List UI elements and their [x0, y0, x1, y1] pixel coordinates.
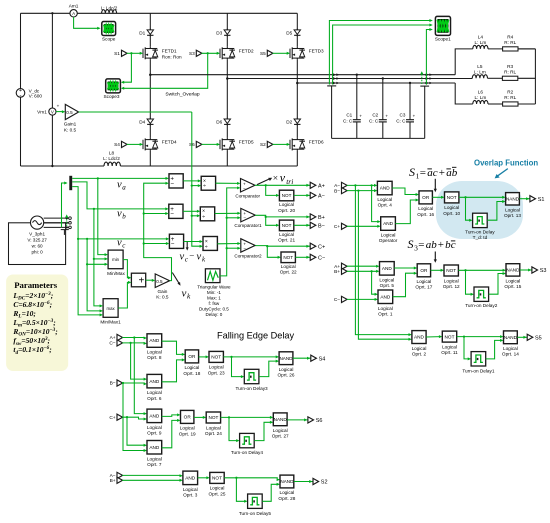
output port S4	[307, 355, 325, 362]
logic AND Oprt. 3	[183, 471, 198, 497]
input port S2	[260, 141, 273, 147]
svg-text:Ron: Ron: Ron: Ron	[162, 54, 182, 59]
parameters note box	[6, 275, 68, 372]
svg-text:NAND: NAND	[274, 417, 288, 422]
svg-text:Am1: Am1	[69, 4, 79, 9]
logic AND Oprt. 4	[377, 181, 392, 207]
wire v_b	[72, 182, 169, 211]
svg-text:B+: B+	[318, 215, 325, 221]
output port S5	[523, 334, 541, 341]
svg-text:Logical: Logical	[147, 456, 162, 461]
svg-text:Oprt. 7: Oprt. 7	[147, 462, 162, 467]
wire OR17 to NOT12	[431, 269, 444, 272]
svg-text:−: −	[243, 246, 246, 251]
wire NOT25 to NAND28	[224, 478, 280, 481]
svg-text:AND: AND	[149, 445, 160, 450]
sum block Sum	[169, 174, 183, 188]
wire NOT10 branch to delay	[464, 196, 472, 222]
wire phase C line	[297, 82, 455, 84]
wire delay to NAND13	[487, 200, 505, 220]
svg-text:Min/Max1: Min/Max1	[100, 320, 121, 325]
wire gate S6	[202, 143, 221, 146]
svg-text:NOT: NOT	[282, 193, 292, 198]
diode D5	[286, 29, 300, 37]
svg-text:Turn-on Delay: Turn-on Delay	[465, 229, 495, 234]
svg-text:+: +	[139, 275, 145, 286]
diode D3	[216, 29, 230, 37]
svg-text:NOT: NOT	[446, 268, 456, 273]
svg-text:S4: S4	[319, 356, 326, 362]
svg-text:AND: AND	[185, 476, 196, 481]
svg-text:OR: OR	[184, 415, 192, 420]
wire gain1 line to products	[191, 112, 203, 248]
svg-text:B−: B−	[334, 188, 340, 194]
svg-text:Max: 1: Max: 1	[207, 295, 221, 300]
svg-text:v: v	[197, 252, 202, 263]
svg-text:Oprt. 4: Oprt. 4	[378, 203, 393, 208]
wire load right edge	[534, 49, 536, 104]
wire phase A line	[150, 74, 455, 76]
svg-text:Logical: Logical	[209, 365, 224, 370]
svg-text:Oprt. 11: Oprt. 11	[441, 350, 458, 355]
wire gate S4	[127, 143, 143, 146]
wire AND7 to OR19	[162, 419, 181, 448]
svg-text:Oprt. 20: Oprt. 20	[278, 208, 295, 213]
svg-text:Comparator1: Comparator1	[234, 223, 262, 228]
input port B+ (row S2)	[110, 477, 123, 484]
wire NOT10 to NAND13	[459, 196, 506, 199]
wire AND5 to OR17	[394, 267, 417, 270]
svg-text:Oprt. 28: Oprt. 28	[278, 496, 295, 501]
svg-text:C1: C1	[346, 113, 352, 118]
wire A- to AND4	[347, 184, 378, 187]
source V_3ph1 symbol	[27, 216, 47, 255]
svg-text:C2: C2	[372, 113, 378, 118]
wire OR18 to NOT23	[199, 355, 209, 358]
svg-text:−: −	[170, 180, 174, 187]
wire NOT23 branch to delay3	[230, 356, 244, 378]
wire NOT12 branch to delay2	[464, 269, 474, 296]
svg-text:Oprt. 26: Oprt. 26	[278, 373, 295, 378]
label Overlap Function	[474, 158, 538, 167]
logic NOT Oprt. 11	[441, 331, 458, 355]
wire comparator2 to C+	[255, 245, 310, 247]
diode D1	[139, 29, 153, 37]
svg-text:A+: A+	[334, 264, 340, 270]
output port B+	[306, 214, 324, 221]
svg-text:AND: AND	[149, 338, 160, 343]
logic AND Oprt. 9	[147, 409, 162, 435]
svg-text:V: V	[51, 109, 54, 114]
svg-text:Oprt. 10: Oprt. 10	[443, 211, 460, 216]
delay block Turn-on Delay2	[465, 287, 498, 308]
svg-text:Logical: Logical	[147, 425, 162, 430]
svg-text:AND: AND	[382, 266, 393, 271]
svg-text:C: C: C: C	[396, 118, 406, 123]
logic NOT Oprt. 10	[443, 192, 460, 216]
svg-text:b: b	[122, 212, 126, 220]
wire cap bottom rail	[332, 137, 425, 139]
wire Am1 to Scope	[74, 17, 101, 30]
product block Product1	[200, 207, 214, 221]
svg-text:DutyCycle: 0.5: DutyCycle: 0.5	[199, 306, 229, 311]
wire va tap to min	[97, 177, 108, 256]
wire C- to AND1	[347, 298, 378, 301]
wire product2 to comparator2	[217, 242, 240, 245]
svg-text:S4: S4	[114, 142, 120, 147]
svg-text:Oprt. 27: Oprt. 27	[272, 434, 289, 439]
wire gate S5	[273, 52, 291, 55]
svg-text:NOT: NOT	[283, 255, 293, 260]
delay block Turn-on Delay5	[239, 494, 272, 516]
scope Scope3	[104, 79, 121, 99]
svg-text:S: S	[409, 165, 415, 179]
logic AND Logical Operator	[379, 217, 398, 243]
svg-text:AND: AND	[383, 221, 394, 226]
svg-text:S: S	[408, 237, 414, 251]
wire 3ph outputs	[44, 217, 72, 235]
svg-text:−: −	[189, 251, 194, 261]
wire NAND15 to S3	[520, 269, 532, 271]
logic NAND Oprt. 27	[272, 413, 289, 439]
logic NAND Oprt. 28	[278, 475, 295, 501]
capacitor C1	[343, 113, 362, 124]
svg-text:R4: R4	[507, 34, 513, 39]
logic NOT Oprt. 25	[209, 472, 226, 496]
wire NOT12 to NAND15	[458, 269, 506, 272]
svg-text:B−: B−	[110, 381, 116, 387]
svg-text:+: +	[438, 239, 444, 251]
svg-text:Oprt. 16: Oprt. 16	[417, 212, 434, 217]
wire load row2	[472, 77, 535, 79]
svg-text:NAND: NAND	[506, 196, 520, 201]
voltmeter wire Vm1	[51, 12, 53, 167]
svg-text:B+: B+	[110, 478, 116, 484]
label v_k	[182, 287, 192, 300]
svg-text:Logical: Logical	[180, 426, 195, 431]
arrow v_k annotation	[172, 273, 181, 287]
svg-text:K: 0.5: K: 0.5	[156, 295, 169, 300]
svg-text:Oprt. 18: Oprt. 18	[183, 371, 200, 376]
wire source to bus bar	[61, 182, 68, 228]
wire A+ to AND8	[122, 337, 147, 340]
logic AND Oprt. 8	[147, 334, 162, 360]
parameters text	[12, 280, 57, 356]
svg-text:S2: S2	[260, 142, 266, 147]
comparator Comparator1	[234, 208, 262, 228]
svg-text:+: +	[57, 103, 60, 108]
svg-text:Oprt. 17: Oprt. 17	[415, 285, 432, 290]
wire NAND27 to S6	[287, 419, 308, 421]
wire comparator1 to B+	[255, 215, 310, 218]
wire sum3 to gain	[146, 279, 156, 282]
wire NAND28 to S2	[294, 481, 313, 483]
svg-text:Triangular Wave: Triangular Wave	[197, 284, 231, 289]
inductor L4	[473, 34, 488, 49]
wire inverter leg 2	[226, 13, 229, 166]
svg-text:Logical: Logical	[206, 425, 221, 430]
wire A- branch to AND2	[354, 184, 412, 336]
output port S2	[309, 478, 327, 485]
svg-text:A+: A+	[318, 183, 325, 189]
wire NOT to C-	[295, 256, 310, 258]
voltmeter arrow right	[420, 71, 423, 84]
svg-text:AND: AND	[149, 379, 160, 384]
svg-text:S5: S5	[260, 51, 266, 56]
logic NOT Oprt. 22	[267, 246, 297, 274]
svg-text:Gain1: Gain1	[64, 122, 77, 127]
logic NAND Oprt. 15	[504, 264, 521, 289]
svg-text:K: 0.5: K: 0.5	[64, 127, 77, 132]
wire delay2 to NAND15	[489, 272, 506, 294]
wire phase B line	[227, 78, 472, 80]
wire product1 to comparator1	[215, 212, 241, 215]
node taps right cluster	[425, 73, 432, 84]
wire NOT11 to NAND14	[457, 335, 504, 338]
svg-text:v: v	[280, 171, 286, 185]
wire bottom rail	[21, 165, 298, 167]
svg-text:Logical: Logical	[279, 490, 294, 495]
diode D4	[139, 118, 153, 126]
logic NAND Oprt. 13	[504, 193, 521, 218]
svg-text:Logical: Logical	[378, 306, 393, 311]
svg-text:OR: OR	[188, 354, 196, 359]
svg-text:max: max	[107, 306, 116, 311]
input port S6	[189, 141, 202, 147]
wire NOT24 branch to delay4	[228, 416, 240, 442]
wire scope1 tap A	[329, 19, 432, 85]
svg-text:B+: B+	[334, 269, 340, 275]
svg-text:Oprt. 3: Oprt. 3	[183, 493, 198, 498]
wire B+ to AND5	[347, 270, 380, 273]
svg-text:Logical: Logical	[279, 367, 294, 372]
svg-text:Min: -1: Min: -1	[207, 290, 221, 295]
logic AND Oprt. 5	[379, 262, 394, 288]
wire gate S2	[273, 143, 291, 146]
svg-text:0.5: 0.5	[156, 279, 163, 284]
label vc-vk	[180, 251, 207, 264]
svg-text:Gain: Gain	[157, 289, 167, 294]
svg-text:Oprt. 9: Oprt. 9	[147, 431, 162, 436]
svg-text:C−: C−	[109, 341, 115, 347]
wire capacitor C3 column	[409, 82, 411, 139]
output port C-	[306, 254, 325, 261]
wire OR19 to NOT24	[194, 416, 206, 419]
product block Product2	[203, 237, 217, 251]
mosfet FETD2	[220, 47, 254, 60]
svg-text:Oprt. 24: Oprt. 24	[205, 431, 222, 436]
wire NOT to B-	[294, 224, 310, 226]
svg-text:+: +	[359, 114, 362, 119]
input port C+ (row S6)	[109, 414, 122, 421]
svg-text:FETD6: FETD6	[309, 140, 324, 145]
input port S1	[114, 50, 127, 56]
wire capacitor C1 column	[356, 74, 358, 139]
wire AND1 to OR17	[393, 272, 418, 297]
scope Scope1	[435, 16, 451, 41]
logic NOT Oprt. 24	[205, 412, 222, 436]
svg-text:Logical: Logical	[418, 206, 433, 211]
wire triangle to comparators	[220, 186, 241, 276]
wire gate S1	[127, 52, 143, 55]
input port C+ (row S1)	[334, 223, 347, 230]
svg-text:Logical: Logical	[147, 390, 162, 395]
svg-text:Oprt. 25: Oprt. 25	[209, 491, 226, 496]
svg-text:b: b	[431, 239, 437, 251]
svg-text:w: 60: w: 60	[32, 244, 43, 249]
svg-text:D3: D3	[216, 30, 222, 35]
mosfet FETD3	[290, 47, 324, 60]
wire comparator0 to A+	[255, 184, 310, 186]
svg-text:D4: D4	[139, 119, 145, 124]
wire B- branch to AND2	[357, 189, 412, 340]
svg-text:Oprt. 1: Oprt. 1	[378, 311, 393, 316]
svg-text:Operator: Operator	[379, 238, 398, 243]
input port A+ (row S4)	[110, 334, 123, 341]
svg-text:S3: S3	[540, 268, 547, 274]
svg-text:Logical: Logical	[377, 197, 392, 202]
svg-text:AND: AND	[414, 335, 425, 340]
inductor L8 (Ldc/2) bottom	[103, 150, 120, 166]
output port A+	[306, 182, 324, 189]
logic OR Oprt. 17	[415, 264, 432, 290]
minmax block Min/Max	[107, 250, 125, 276]
svg-text:V_3ph1: V_3ph1	[29, 231, 45, 236]
svg-text:Scope1: Scope1	[435, 36, 451, 41]
wire AND8 to OR18	[162, 341, 186, 356]
comparator Comparator2	[234, 239, 262, 259]
wire min to sum3	[123, 260, 131, 280]
svg-text:S1: S1	[114, 51, 120, 56]
logic AND Oprt. 7	[147, 441, 162, 467]
wire A- to AND3	[122, 474, 183, 477]
svg-text:Scope3: Scope3	[104, 94, 120, 99]
svg-text:−: −	[170, 211, 174, 218]
svg-text:Parameters: Parameters	[14, 280, 58, 290]
wire v_a	[72, 177, 169, 180]
minmax block Min/Max1	[100, 299, 121, 325]
svg-text:A−: A−	[318, 194, 325, 200]
svg-text:=: =	[418, 239, 424, 251]
resistor R4	[503, 34, 536, 51]
wire scope1 tap B	[333, 24, 433, 85]
label x v_tri	[273, 171, 293, 186]
svg-text:Logical: Logical	[416, 279, 431, 284]
wire OR16 to NOT10	[432, 196, 444, 199]
svg-text:Turn-on Delay3: Turn-on Delay3	[236, 386, 269, 391]
svg-text:L: Ldc/2: L: Ldc/2	[101, 5, 118, 10]
svg-text:Comparator2: Comparator2	[234, 254, 262, 259]
wire max to sum3	[118, 281, 131, 308]
svg-text:Min/Max: Min/Max	[107, 271, 125, 276]
svg-text:OR: OR	[422, 195, 430, 200]
input port A- (row S2)	[110, 472, 123, 479]
svg-text:V: 600: V: 600	[29, 93, 43, 98]
wire Vm1 to Gain1	[56, 110, 65, 113]
svg-text:Logical: Logical	[412, 346, 427, 351]
svg-text:Oprt. 15: Oprt. 15	[504, 284, 521, 289]
svg-text:Turn-on Delay1: Turn-on Delay1	[462, 368, 495, 373]
svg-text:Oprt. 2: Oprt. 2	[412, 351, 427, 356]
gain block Gain	[155, 274, 169, 300]
svg-text:FETD2: FETD2	[239, 49, 254, 54]
svg-text:T_d: td: T_d: td	[473, 235, 488, 240]
svg-text:Logical: Logical	[273, 428, 288, 433]
svg-text:B−: B−	[318, 223, 325, 229]
wire A+ branch to AND9	[133, 336, 147, 415]
wire A+ to AND5	[347, 265, 380, 268]
wire NOT11 branch to delay1	[463, 335, 471, 360]
logic OR Oprt. 16	[417, 191, 434, 217]
svg-text:−: −	[243, 186, 246, 191]
sum block Sum2	[169, 234, 183, 248]
svg-text:Logical: Logical	[503, 346, 518, 351]
voltmeter Vm1	[37, 103, 59, 115]
output port A-	[306, 192, 324, 199]
svg-text:FETD3: FETD3	[309, 49, 324, 54]
input port A+ (row S3)	[334, 263, 347, 270]
wire C- branch to AND6	[129, 342, 147, 381]
wire vc tap to min/max	[86, 238, 108, 313]
svg-text:FETD1: FETD1	[162, 49, 177, 54]
svg-text:Delay: 0: Delay: 0	[205, 312, 222, 317]
svg-text:L8: L8	[109, 150, 115, 155]
input port S3	[189, 50, 202, 56]
svg-text:OR: OR	[420, 268, 428, 273]
svg-text:v: v	[117, 179, 122, 190]
wire v_c	[72, 187, 169, 241]
wire load row3	[455, 83, 535, 104]
mosfet FETD6	[290, 138, 324, 151]
svg-text:−: −	[243, 216, 246, 221]
svg-text:÷: ÷	[205, 244, 208, 250]
diode D2	[286, 118, 300, 126]
svg-text:S2: S2	[321, 480, 328, 486]
svg-text:C3: C3	[400, 113, 406, 118]
wire Gain1 out	[79, 111, 192, 113]
wire cap neutral right	[420, 86, 429, 138]
svg-text:tri: tri	[286, 177, 293, 186]
delay block Turn-on Delay3	[236, 369, 269, 391]
svg-text:+: +	[385, 114, 388, 119]
input port C- (row S4)	[109, 340, 122, 347]
input port C- (row S3)	[334, 296, 347, 303]
svg-text:L4: L4	[478, 34, 484, 39]
output port C+	[306, 243, 325, 250]
svg-text:Logical: Logical	[279, 232, 294, 237]
svg-text:C+: C+	[109, 415, 115, 421]
label v_b	[117, 208, 126, 220]
wire LogicalOperator to OR16	[395, 199, 419, 224]
delay block Turn-on Delay	[465, 213, 495, 240]
svg-text:Logical: Logical	[147, 350, 162, 355]
mosfet FETD1	[143, 47, 182, 60]
svg-text:Turn-on Delay4: Turn-on Delay4	[231, 450, 264, 455]
svg-text:÷: ÷	[203, 184, 206, 190]
wire AND9 to OR19	[162, 413, 181, 416]
svg-text:Vm1: Vm1	[37, 109, 47, 114]
scope Scope	[102, 22, 116, 42]
inductor L6	[473, 90, 488, 105]
svg-text:L: Ldc/2: L: Ldc/2	[103, 156, 120, 161]
logic NAND Oprt. 14	[502, 331, 519, 357]
svg-text:Logical: Logical	[183, 487, 198, 492]
svg-text:v: v	[117, 208, 122, 219]
svg-text:FETD4: FETD4	[162, 140, 177, 145]
svg-text:Oprt. 19: Oprt. 19	[179, 431, 196, 436]
svg-text:D6: D6	[216, 119, 222, 124]
svg-text:Logical: Logical	[210, 486, 225, 491]
